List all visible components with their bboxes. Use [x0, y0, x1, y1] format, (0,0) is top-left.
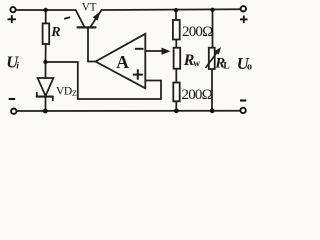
- svg-text:200Ω: 200Ω: [182, 87, 213, 103]
- svg-text:w: w: [193, 59, 200, 69]
- svg-text:200Ω: 200Ω: [182, 24, 213, 40]
- svg-text:VT: VT: [82, 1, 97, 13]
- svg-text:A: A: [116, 52, 129, 72]
- svg-text:o: o: [247, 62, 252, 73]
- svg-text:L: L: [223, 61, 229, 71]
- svg-text:R: R: [50, 25, 60, 40]
- svg-text:i: i: [16, 61, 19, 71]
